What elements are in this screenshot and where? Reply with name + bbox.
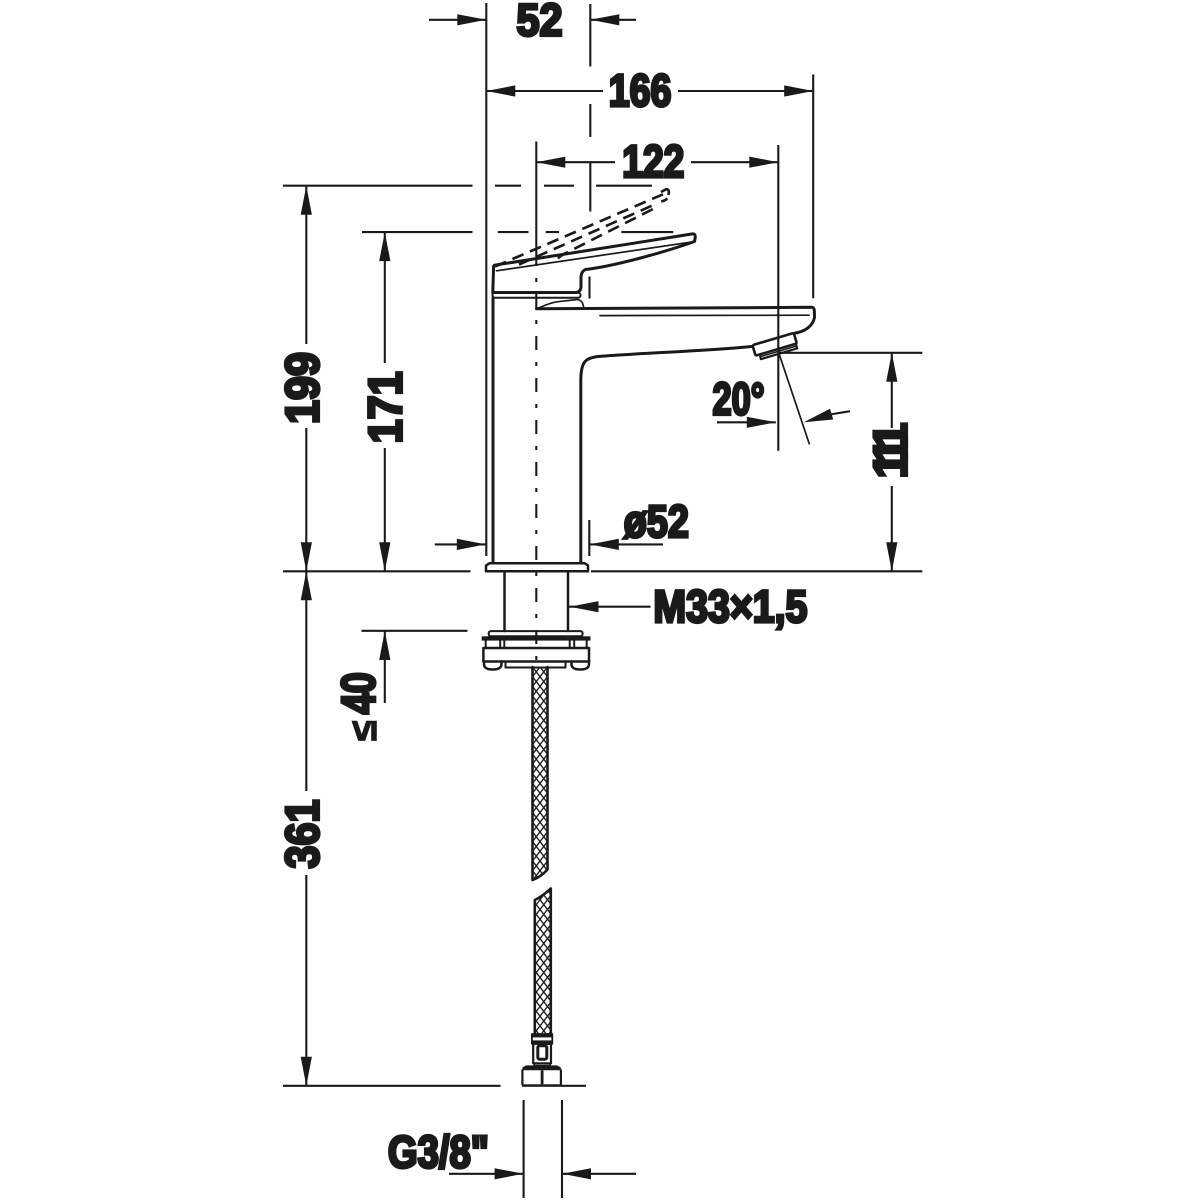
svg-text:166: 166: [609, 65, 672, 116]
svg-text:M33×1,5: M33×1,5: [653, 581, 807, 632]
svg-text:≤: ≤: [343, 721, 384, 741]
svg-text:199: 199: [275, 352, 328, 424]
svg-text:111: 111: [863, 423, 916, 479]
svg-text:G3/8": G3/8": [388, 1127, 489, 1178]
svg-text:ø52: ø52: [624, 496, 689, 547]
svg-text:20°: 20°: [713, 373, 765, 424]
svg-text:52: 52: [517, 0, 563, 45]
svg-text:40: 40: [331, 672, 384, 714]
svg-text:361: 361: [275, 800, 328, 869]
svg-text:122: 122: [622, 136, 684, 187]
svg-text:171: 171: [358, 371, 411, 443]
